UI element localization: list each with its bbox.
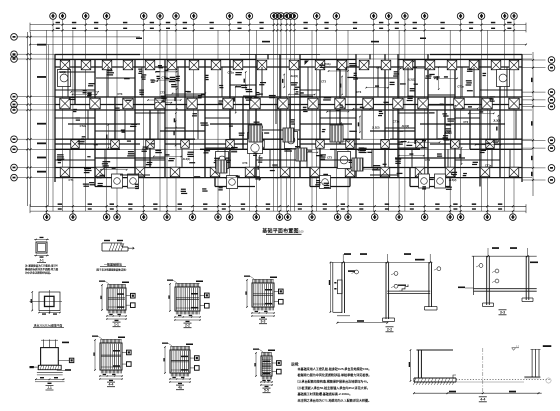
- svg-text:3-3: 3-3: [500, 311, 505, 315]
- top overall dimension line: [30, 44, 526, 46]
- two-pile caps: [58, 70, 71, 87]
- top dimension lines: [30, 24, 526, 26]
- svg-text:CT2: CT2: [321, 80, 326, 84]
- svg-text:CT2a: CT2a: [162, 75, 169, 79]
- svg-text:CT1a: CT1a: [485, 164, 492, 168]
- svg-text:1-1: 1-1: [114, 323, 119, 327]
- svg-text:1:100: 1:100: [297, 229, 304, 233]
- svg-text:基础施工时须验槽,基础底标高-2.100m。: 基础施工时须验槽,基础底标高-2.100m。: [297, 391, 353, 396]
- svg-text:JL3(1): JL3(1): [493, 119, 501, 123]
- svg-text:JL3(1): JL3(1): [407, 77, 415, 81]
- svg-text:CT3: CT3: [97, 176, 102, 180]
- svg-text:CT1a: CT1a: [152, 79, 159, 83]
- bottom grid bubbles: [46, 211, 48, 214]
- horizontal grid lines: [18, 36, 141, 38]
- stair core hatched blocks: [249, 125, 262, 142]
- svg-text:2-2: 2-2: [185, 324, 190, 328]
- svg-text:一般基础做法: 一般基础做法: [104, 261, 122, 266]
- pile cap section detail 5-5: [261, 352, 263, 356]
- svg-text:(用于未注明基础垫层做法处): (用于未注明基础垫层做法处): [96, 267, 127, 271]
- svg-text:⑵:桩顶嵌入承台50,桩主筋锚入承台内35d,详见大样。: ⑵:桩顶嵌入承台50,桩主筋锚入承台内35d,详见大样。: [298, 385, 370, 390]
- svg-text:JL5(2): JL5(2): [449, 178, 457, 182]
- top grid bubbles: [50, 13, 57, 20]
- svg-text:JL2(2): JL2(2): [444, 130, 452, 134]
- internal dimension strings: [329, 70, 349, 72]
- left grid bubbles: [11, 34, 18, 41]
- bottom dimension lines: [30, 205, 526, 207]
- svg-text:基础平面布置图: 基础平面布置图: [261, 228, 298, 235]
- pile cap section detail 4a: [170, 346, 172, 350]
- svg-text:J-1: J-1: [47, 386, 52, 390]
- right vertical dimension line: [532, 52, 534, 196]
- svg-text:CT1a: CT1a: [393, 120, 400, 124]
- svg-text:4-4: 4-4: [109, 383, 114, 387]
- left vertical dimension lines: [27, 32, 29, 206]
- pile cap section detail 3-3: [252, 279, 254, 283]
- svg-text:基础底标高详见平面图,持力层: 基础底标高详见平面图,持力层: [24, 267, 59, 271]
- svg-text:2-2: 2-2: [387, 328, 392, 332]
- right grid bubbles: [548, 57, 555, 64]
- svg-text:CT3: CT3: [84, 166, 89, 170]
- svg-text:JL7(3A): JL7(3A): [321, 62, 331, 66]
- pile caps row B: [60, 60, 70, 70]
- pile caps row mid: [71, 140, 80, 149]
- svg-text:CT2: CT2: [463, 120, 468, 124]
- svg-text:JL2(2): JL2(2): [372, 126, 380, 130]
- section cut flags top edge: [259, 61, 264, 66]
- svg-text:JL5(2): JL5(2): [401, 124, 409, 128]
- detail J-1 plan: [36, 242, 47, 253]
- svg-text:CT1: CT1: [69, 178, 74, 182]
- pile caps row E: [60, 167, 70, 177]
- svg-text:CT3: CT3: [327, 156, 332, 160]
- svg-text:CT3: CT3: [160, 90, 165, 94]
- svg-text:为中风化泥质粉砂岩层。: 为中风化泥质粉砂岩层。: [25, 271, 53, 275]
- detail foundation practice: [102, 242, 122, 244]
- svg-text:4a: 4a: [178, 386, 182, 390]
- detail J-1 footing section: [43, 339, 45, 347]
- svg-text:CT2a: CT2a: [80, 124, 87, 128]
- svg-text:CT3: CT3: [356, 90, 361, 94]
- svg-text:JL3(1): JL3(1): [183, 157, 191, 161]
- svg-text:注:基础垫层为C10素砼,厚100: 注:基础垫层为C10素砼,厚100: [25, 264, 58, 268]
- section 4-4: [417, 349, 454, 351]
- svg-text:CT2: CT2: [425, 158, 430, 162]
- plan annotation labels: [398, 131, 403, 132]
- foundation beams vertical: [54, 55, 56, 183]
- svg-text:CT1: CT1: [376, 66, 381, 70]
- pile cap section detail 1-1: [107, 284, 109, 288]
- detail pile cap plan J12: [49, 290, 51, 314]
- svg-text:JL3(1): JL3(1): [58, 70, 66, 74]
- svg-text:桩端持力层为中风化泥质粉砂岩,单桩承载力详见桩表。: 桩端持力层为中风化泥质粉砂岩,单桩承载力详见桩表。: [297, 372, 372, 377]
- svg-text:承台J12(J12a)配筋平面: 承台J12(J12a)配筋平面: [34, 324, 63, 328]
- svg-text:JL3(1): JL3(1): [290, 74, 298, 78]
- pile caps row CD: [60, 98, 71, 109]
- section 3-3: [472, 255, 537, 257]
- foundation beams horizontal: [55, 59, 256, 61]
- pile cap section detail 4-4: [100, 339, 102, 343]
- svg-text:说明:: 说明:: [291, 361, 299, 366]
- svg-text:4-4: 4-4: [480, 398, 485, 402]
- svg-text:J-1: J-1: [39, 259, 44, 263]
- svg-text:3-3: 3-3: [261, 320, 266, 324]
- svg-text:5-5: 5-5: [264, 389, 269, 393]
- svg-text:CT1a: CT1a: [457, 85, 464, 89]
- pile cap section detail 2-2: [175, 283, 177, 287]
- svg-text:CT3: CT3: [117, 92, 122, 96]
- svg-text:⑴:承台配筋均按构造,钢筋保护层承台及地梁均为40。: ⑴:承台配筋均按构造,钢筋保护层承台及地梁均为40。: [298, 379, 370, 384]
- svg-text:CT2a: CT2a: [227, 70, 234, 74]
- svg-text:CT3: CT3: [242, 161, 247, 165]
- svg-text:本基础采用人工挖孔桩,桩身砼C25,承台及地梁砼C30。: 本基础采用人工挖孔桩,桩身砼C25,承台及地梁砼C30。: [298, 366, 372, 371]
- vertical grid lines: [52, 19, 54, 211]
- interior partition beams: [60, 71, 95, 73]
- svg-text:未注明之承台均为CT1,地梁均为JL1,配筋详见大样图。: 未注明之承台均为CT1,地梁均为JL1,配筋详见大样图。: [297, 398, 372, 403]
- section 2-2: [330, 261, 432, 263]
